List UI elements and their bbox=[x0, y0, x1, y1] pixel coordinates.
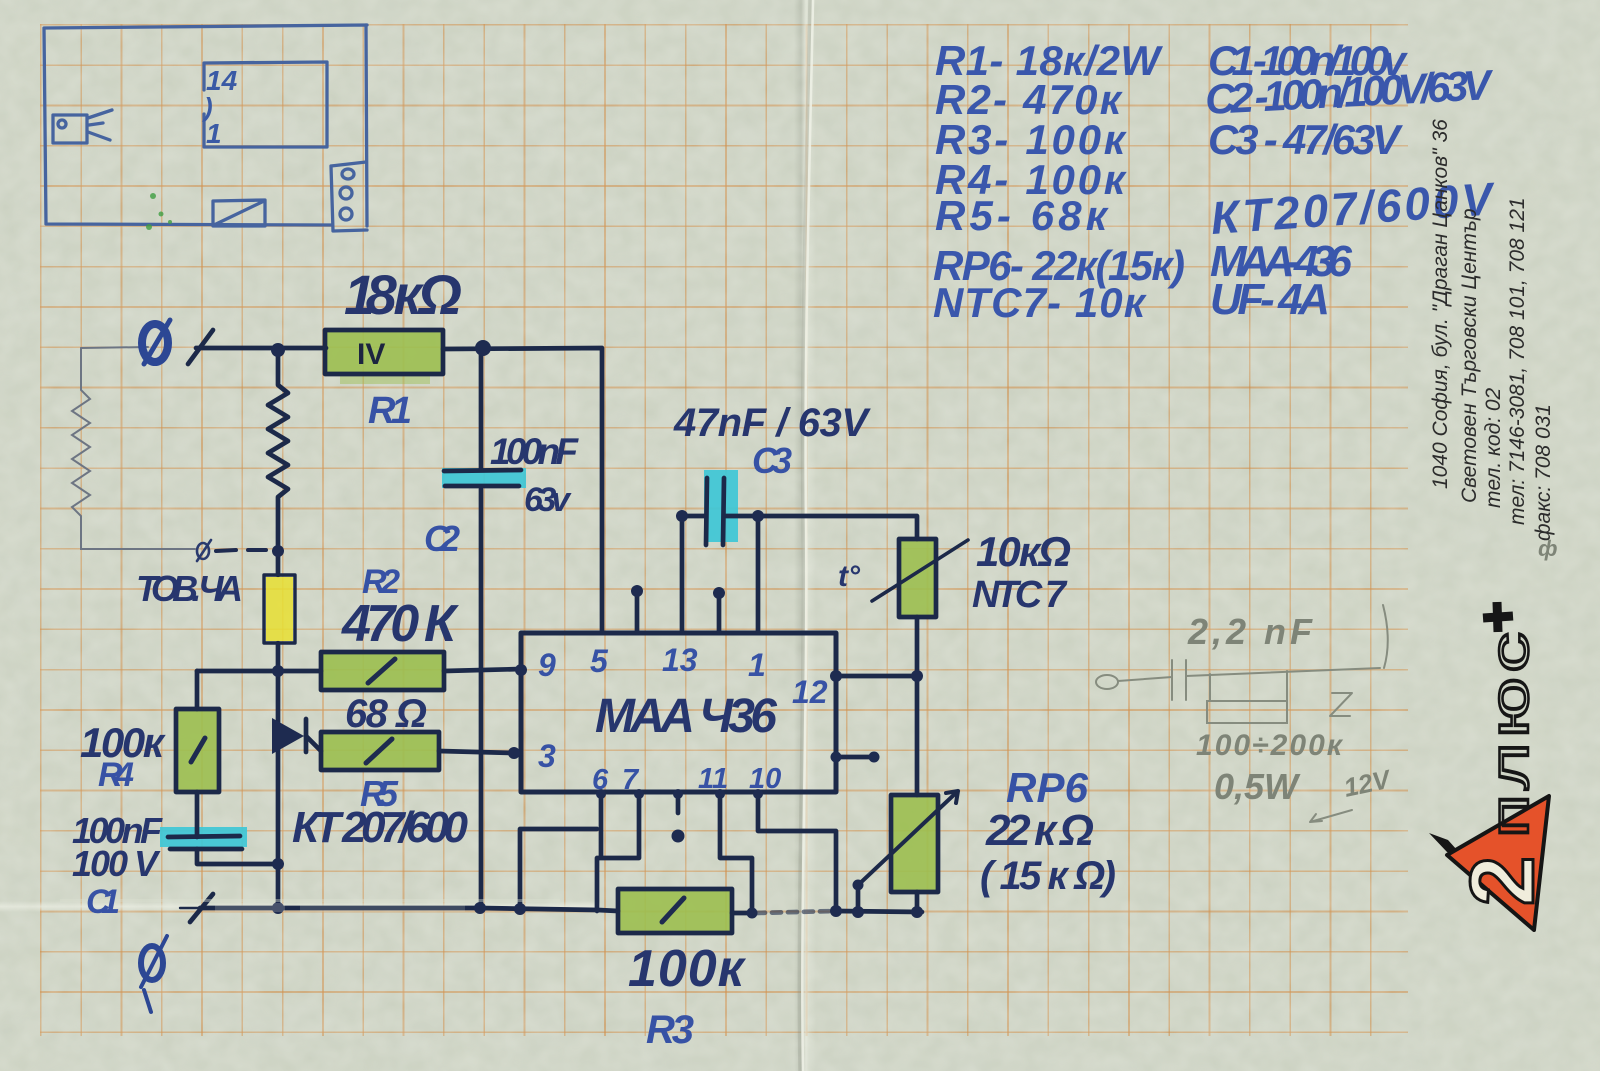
svg-text:t°: t° bbox=[838, 560, 861, 593]
svg-text:11: 11 bbox=[698, 763, 728, 795]
svg-text:C1: C1 bbox=[86, 883, 120, 921]
svg-text:плюс: плюс bbox=[1479, 628, 1539, 838]
svg-text:100 V: 100 V bbox=[72, 843, 161, 884]
svg-text:RP6: RP6 bbox=[1006, 764, 1089, 811]
svg-text:тел. код: 02: тел. код: 02 bbox=[1482, 387, 1505, 508]
svg-text:R2: R2 bbox=[362, 563, 400, 601]
svg-text:C2: C2 bbox=[424, 518, 460, 559]
svg-text:68 Ω: 68 Ω bbox=[345, 692, 427, 736]
svg-text:9: 9 bbox=[538, 647, 556, 683]
svg-text:Световен Търговски Център: Световен Търговски Център bbox=[1458, 208, 1481, 503]
svg-text:R3: R3 bbox=[646, 1008, 694, 1052]
svg-text:2,2 nF: 2,2 nF bbox=[1187, 611, 1313, 652]
svg-text:R1: R1 bbox=[368, 390, 412, 432]
svg-text:63v: 63v bbox=[524, 481, 572, 519]
svg-text:47nF / 63V: 47nF / 63V bbox=[673, 401, 871, 445]
svg-text:ТОВ. ЧА: ТОВ. ЧА bbox=[136, 568, 243, 609]
svg-text:22 к Ω: 22 к Ω bbox=[985, 806, 1094, 855]
svg-text:7: 7 bbox=[622, 764, 640, 796]
svg-text:1: 1 bbox=[748, 647, 766, 683]
svg-text:C3: C3 bbox=[752, 440, 792, 481]
svg-text:13: 13 bbox=[662, 642, 698, 678]
svg-text:100к: 100к bbox=[628, 940, 747, 998]
svg-text:1040 София, бул. "Драган Цанко: 1040 София, бул. "Драган Цанков" 36 bbox=[1429, 119, 1452, 489]
svg-text:470 К: 470 К bbox=[341, 595, 459, 653]
svg-text:R5: R5 bbox=[360, 773, 399, 814]
svg-text:тел: 7146-3081, 708 101, 708 1: тел: 7146-3081, 708 101, 708 121 bbox=[1506, 197, 1529, 525]
svg-text:1: 1 bbox=[206, 118, 222, 149]
svg-text:100÷200к: 100÷200к bbox=[1196, 729, 1344, 762]
svg-text:UF- 4A: UF- 4A bbox=[1210, 275, 1330, 324]
svg-text:МАА Ч36: МАА Ч36 bbox=[595, 690, 777, 743]
svg-text:12: 12 bbox=[792, 674, 828, 710]
svg-text:6: 6 bbox=[592, 764, 609, 796]
svg-text:10: 10 bbox=[749, 763, 781, 795]
svg-text:( 15 к Ω): ( 15 к Ω) bbox=[980, 854, 1116, 898]
svg-text:C3 - 47/63V: C3 - 47/63V bbox=[1208, 116, 1403, 163]
svg-text:0,5W: 0,5W bbox=[1214, 766, 1301, 807]
svg-text:IV: IV bbox=[357, 338, 385, 371]
svg-text:5: 5 bbox=[590, 643, 609, 679]
svg-text:R4: R4 bbox=[98, 756, 134, 794]
svg-text:10кΩ: 10кΩ bbox=[976, 528, 1071, 575]
svg-text:2: 2 bbox=[1453, 856, 1553, 906]
svg-text:факс: 708 031: факс: 708 031 bbox=[1532, 404, 1555, 541]
svg-text:NTC 7: NTC 7 bbox=[972, 574, 1068, 616]
svg-text:3: 3 bbox=[538, 738, 556, 774]
svg-text:18 к Ω: 18 к Ω bbox=[344, 263, 462, 326]
svg-text:NTC7- 10к: NTC7- 10к bbox=[933, 279, 1147, 326]
svg-text:100nF: 100nF bbox=[490, 431, 579, 472]
